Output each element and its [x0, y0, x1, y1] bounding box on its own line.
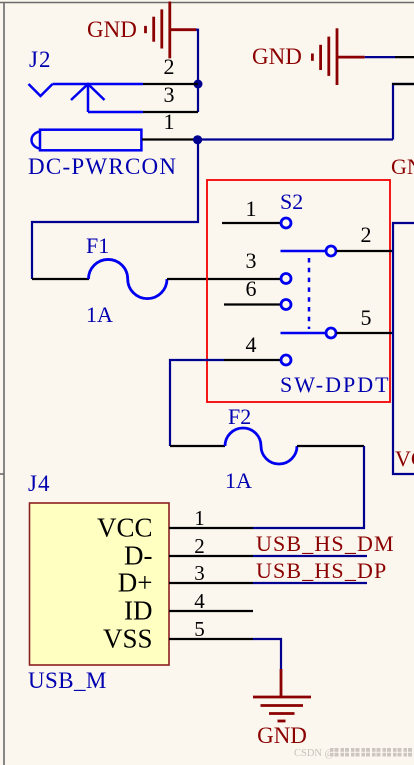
svg-text:4: 4: [246, 332, 257, 357]
pin 5 of J4 (VSS): [103, 617, 253, 654]
ground bars GND3: [253, 669, 311, 721]
svg-text:D-: D-: [124, 541, 153, 571]
F1 fuse wave: [89, 259, 168, 298]
pin 2 of S2 (pole): [281, 222, 394, 256]
tip barrel body: [40, 130, 141, 151]
sleeve contact chevron: [29, 84, 53, 96]
svg-text:F1: F1: [86, 233, 109, 258]
svg-text:5: 5: [194, 617, 205, 641]
F2 fuse wave: [225, 428, 297, 464]
pin 3 of S2: [246, 248, 292, 284]
watermark: [294, 748, 412, 759]
svg-text:J2: J2: [29, 47, 51, 72]
ground GND1 (top-left power ground): [87, 2, 197, 59]
wire VSS to ground GND3: [253, 639, 281, 669]
sleeve contact line: [53, 83, 144, 86]
svg-text:J4: J4: [28, 471, 50, 496]
pin 3 lead: [143, 111, 198, 113]
wire net USB_HS_DM: [253, 555, 367, 557]
pin 4 of S2: [224, 332, 291, 365]
pin 3 of J4 (D+): [118, 561, 253, 598]
wire VCC rail (right edge): [393, 223, 414, 474]
wire J2 pin 1 net down-left to fuse F1: [32, 140, 198, 280]
pin 5 of S2 (pole): [281, 305, 394, 338]
pin 4 lead: [224, 359, 281, 361]
svg-text:1A: 1A: [86, 302, 113, 327]
pin 4 lead: [169, 610, 253, 612]
pin 6 contact circle: [281, 300, 291, 310]
pin 1 of J4 (VCC): [97, 506, 253, 543]
F1 left lead: [32, 278, 89, 280]
svg-text:USB_M: USB_M: [28, 668, 107, 693]
wire F2 down to J4 pin 1: [253, 446, 364, 528]
svg-text:1: 1: [164, 109, 175, 134]
svg-text:VCC: VCC: [97, 513, 153, 543]
pin stub of off-sheet component at GND2: [395, 56, 414, 58]
svg-text:5: 5: [361, 305, 372, 330]
svg-text:USB_HS_DM: USB_HS_DM: [256, 531, 395, 556]
switch lever pole 5: [281, 332, 327, 335]
wire J2 pin 1 to right side: [198, 138, 393, 140]
ground bars GND1: [146, 2, 197, 59]
svg-text:USB_HS_DP: USB_HS_DP: [256, 558, 387, 583]
pin 6 lead: [224, 303, 281, 305]
pin 3 contact circle: [281, 274, 291, 284]
pin 4 contact circle: [281, 355, 291, 365]
svg-text:GND: GND: [252, 44, 302, 69]
pin 2 contact circle: [326, 246, 336, 256]
connector J4 body: [30, 503, 170, 665]
svg-text:VSS: VSS: [103, 624, 153, 654]
svg-text:1A: 1A: [225, 468, 252, 493]
pin 1 of S2: [222, 196, 291, 228]
junction at node J2 pin 1 (+V): [193, 135, 202, 144]
svg-text:3: 3: [246, 248, 257, 273]
svg-text:1: 1: [246, 196, 257, 221]
switch lever pole 2: [281, 250, 327, 253]
pin stub of off-sheet component (top right): [392, 83, 414, 85]
wire GND2 to right edge: [365, 56, 395, 58]
pin 5 lead: [169, 638, 253, 640]
pin 1 of J2: [142, 109, 198, 140]
fuse F2: [170, 404, 364, 493]
switch S2 gang link (dashed): [308, 258, 311, 329]
svg-text:S2: S2: [280, 189, 303, 214]
switch S2 body box: [207, 180, 390, 402]
pin 1 lead: [169, 527, 253, 529]
svg-text:3: 3: [194, 561, 205, 585]
wire net USB_HS_DP: [253, 582, 367, 584]
pin 1 lead: [222, 222, 281, 224]
F2 left lead: [170, 445, 225, 447]
connector J2 barrel-jack symbol: [29, 84, 144, 150]
switch contact arrow: [87, 84, 90, 112]
pin 1 lead: [142, 138, 198, 140]
svg-text:ID: ID: [124, 596, 153, 626]
svg-text:1: 1: [194, 506, 205, 530]
pin 2 lead: [169, 555, 253, 557]
svg-text:D+: D+: [118, 568, 153, 598]
wire GND1 down to J2 pin 2 and pin 3: [196, 30, 198, 112]
svg-text:3: 3: [164, 82, 175, 107]
svg-text:GND: GND: [87, 17, 137, 42]
wire S2 pin 4 down to fuse F2: [170, 360, 224, 446]
pin 6 of S2: [224, 276, 291, 310]
ground bars GND2: [312, 28, 364, 85]
ground GND3 (bottom): [253, 669, 311, 748]
svg-text:2: 2: [164, 54, 175, 79]
svg-text:SW-DPDT: SW-DPDT: [280, 372, 391, 397]
switch contact line: [88, 111, 143, 114]
wire pin 5 to VCC rail: [337, 332, 394, 334]
ground GND2 (top-right power ground): [252, 28, 414, 85]
pin 2 of J4 (D-): [124, 534, 253, 571]
svg-text:F2: F2: [228, 404, 251, 429]
wire pin 2 to VCC rail: [337, 250, 394, 252]
pin 3 of J2: [143, 82, 198, 112]
svg-text:2: 2: [194, 534, 205, 558]
pin 4 of J4 (ID): [124, 589, 253, 626]
svg-text:2: 2: [361, 222, 372, 247]
wire F1 to S2 pin 3: [167, 278, 281, 280]
wire up to top-right component: [393, 84, 414, 140]
pin 3 lead: [169, 582, 253, 584]
svg-text:6: 6: [246, 276, 257, 301]
svg-text:DC-PWRCON: DC-PWRCON: [28, 154, 177, 179]
pin 5 contact circle: [326, 328, 336, 338]
fuse F1: [32, 233, 281, 327]
pin 2 lead: [143, 83, 198, 85]
pin 2 of J2: [143, 54, 198, 84]
svg-text:CSDN @: CSDN @: [294, 748, 335, 759]
svg-text:GND: GND: [257, 723, 307, 748]
pin 1 contact circle: [281, 218, 291, 228]
junction at node J2 pin 2 / GND: [194, 80, 203, 89]
svg-text:4: 4: [194, 589, 205, 613]
F2 right lead: [297, 445, 364, 447]
svg-text:GND: GND: [391, 154, 414, 179]
svg-text:VCC: VCC: [395, 446, 414, 471]
